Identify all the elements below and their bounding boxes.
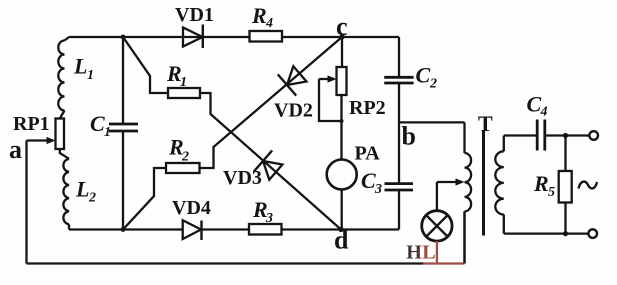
wire: bottom bridge bus (L2 to VD4) xyxy=(69,228,183,230)
wire: secondary bottom to bottom terminal xyxy=(504,232,589,234)
svg-text:a: a xyxy=(9,135,22,164)
svg-text:VD4: VD4 xyxy=(172,197,211,219)
svg-text:PA: PA xyxy=(355,143,381,165)
wire: top bus left (L1 top to R4 left) xyxy=(69,36,250,38)
potentiometer RP2 xyxy=(337,67,386,119)
wire: node c to RP2 top xyxy=(341,37,343,67)
resistor R3 xyxy=(249,197,282,235)
lamp HL xyxy=(406,182,452,264)
svg-text:L: L xyxy=(422,242,435,264)
svg-text:4: 4 xyxy=(265,16,273,31)
wire: node b to transformer primary top xyxy=(399,121,465,123)
AC source symbol ~ xyxy=(579,182,598,189)
resistor R5 xyxy=(533,136,572,234)
svg-text:RP1: RP1 xyxy=(13,113,50,135)
transformer T secondary winding xyxy=(495,136,504,234)
node junction R5 bottom xyxy=(563,231,568,236)
svg-text:d: d xyxy=(334,226,349,255)
svg-text:L: L xyxy=(75,177,89,202)
svg-text:c: c xyxy=(336,12,348,41)
capacitor C4 xyxy=(527,92,548,151)
wire: bottom bridge bus (R3 right to C3 bottom) xyxy=(282,228,399,230)
transformer T primary winding xyxy=(465,122,472,263)
svg-text:4: 4 xyxy=(540,105,548,120)
svg-text:VD3: VD3 xyxy=(223,167,262,189)
svg-text:3: 3 xyxy=(374,182,382,197)
diode VD3 xyxy=(223,150,282,189)
svg-text:C: C xyxy=(416,63,431,88)
wire: J2 to R2 left lead xyxy=(123,168,166,230)
svg-text:2: 2 xyxy=(429,77,437,92)
svg-text:1: 1 xyxy=(87,68,94,83)
svg-text:T: T xyxy=(478,111,493,136)
node c xyxy=(339,34,344,39)
svg-text:R: R xyxy=(533,171,549,196)
potentiometer RP1 xyxy=(13,113,64,149)
wire: R1 right lead into VD3 diagonal xyxy=(200,93,341,230)
wire: J1 to R1 left lead xyxy=(123,37,168,93)
terminal top-right xyxy=(589,131,598,140)
svg-text:5: 5 xyxy=(548,185,555,200)
svg-text:RP2: RP2 xyxy=(349,97,386,119)
transformer T core xyxy=(482,131,485,236)
svg-text:3: 3 xyxy=(265,211,273,226)
capacitor C2 xyxy=(384,37,437,122)
inductor L1 xyxy=(58,37,94,119)
resistor R1 xyxy=(166,61,200,98)
node junction J2 (C1 bottom tap) xyxy=(121,227,126,232)
wire: top bus right (R4 right to C2 branch corner) xyxy=(282,36,399,38)
svg-text:H: H xyxy=(406,242,422,264)
node junction R5 top xyxy=(563,133,568,138)
wire: bottom return red segment xyxy=(423,262,465,264)
svg-text:2: 2 xyxy=(88,191,96,206)
resistor R2 xyxy=(166,135,200,174)
wire: transformer primary bottom lead xyxy=(463,211,465,263)
svg-text:C: C xyxy=(361,168,376,193)
capacitor C3 xyxy=(361,122,413,229)
wire: bottom bridge bus (VD4 bar to R3 left) xyxy=(202,228,250,230)
wire: R2 right lead into VD2 diagonal xyxy=(200,37,343,168)
svg-text:2: 2 xyxy=(181,150,189,165)
svg-text:L: L xyxy=(73,54,87,79)
capacitor C1 xyxy=(90,37,138,230)
node junction J1 (C1 top tap) xyxy=(121,35,126,40)
wire: PA bottom to node d xyxy=(341,190,343,230)
node d xyxy=(338,227,343,232)
svg-text:1: 1 xyxy=(104,125,111,140)
diode VD1 xyxy=(175,4,214,48)
svg-text:C: C xyxy=(90,111,105,136)
diode VD4 xyxy=(172,197,211,240)
resistor R4 xyxy=(250,3,283,42)
transformer tap arrow to lamp xyxy=(437,178,465,185)
meter PA xyxy=(327,143,381,190)
RP2 wiper arrow and tie xyxy=(319,75,344,123)
wire: C4 to top terminal xyxy=(546,134,589,136)
wire: lamp bottom lead (red) xyxy=(436,241,438,263)
wire: RP2 bottom to PA top xyxy=(340,95,342,160)
wire: node a down lead xyxy=(25,141,27,264)
RP1 wiper arrow xyxy=(27,137,56,144)
wire: bottom return bus xyxy=(27,262,424,264)
svg-text:VD1: VD1 xyxy=(175,4,214,26)
svg-text:b: b xyxy=(402,122,416,151)
inductor L2 xyxy=(60,149,96,230)
wire: secondary top to C4 xyxy=(504,134,536,136)
terminal bottom-right xyxy=(588,229,597,238)
svg-text:C: C xyxy=(527,92,542,117)
svg-text:VD2: VD2 xyxy=(274,100,313,122)
svg-text:1: 1 xyxy=(180,75,187,90)
diode VD2 xyxy=(274,66,313,121)
svg-text:R: R xyxy=(251,3,267,28)
